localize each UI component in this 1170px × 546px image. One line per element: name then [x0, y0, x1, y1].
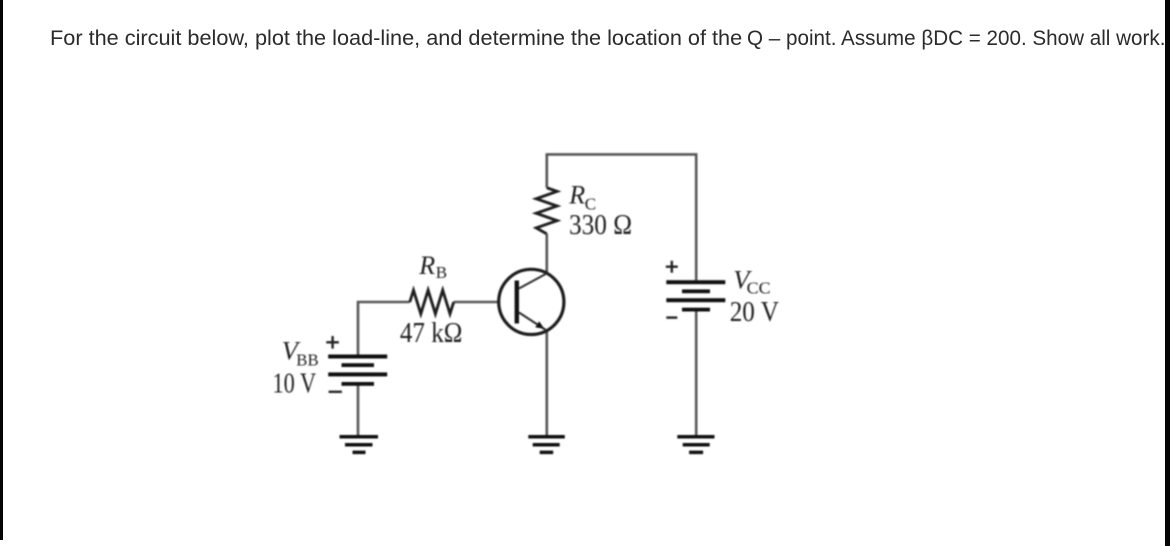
svg-text:CC: CC	[747, 279, 771, 298]
svg-text:20 V: 20 V	[730, 296, 779, 328]
svg-text:10 V: 10 V	[273, 367, 317, 399]
svg-text:R: R	[418, 251, 435, 280]
svg-text:R: R	[568, 181, 585, 210]
svg-text:B: B	[436, 263, 447, 282]
svg-text:47 kΩ: 47 kΩ	[400, 318, 463, 349]
svg-text:330 Ω: 330 Ω	[569, 210, 632, 241]
